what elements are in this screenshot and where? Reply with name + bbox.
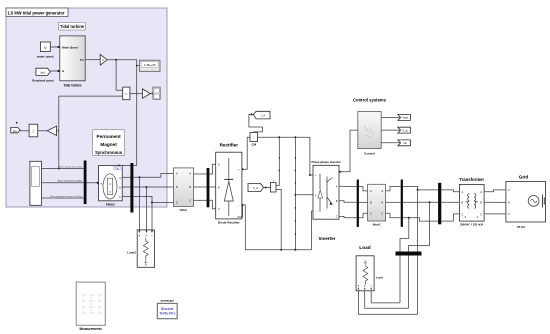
wire bar3 to transformer A [441,190,459,192]
svg-text:V_dc: V_dc [402,129,408,132]
DC link branch 1 [279,137,280,185]
DC plus rail wire [258,136,314,176]
subsystem box 1.5 MW tidal power generator [6,8,167,207]
svg-text:Gate: Gate [402,117,408,120]
label Grid [519,174,529,179]
wire bar3 to transformer C [441,214,459,221]
svg-text:C: C [119,196,121,199]
svg-text:Permanent: Permanent [96,134,121,139]
Load1 block [127,230,154,267]
tap C staircase to load bus [400,218,409,303]
svg-text:Filter: Filter [180,208,188,212]
wire PMSG phase B [122,186,130,188]
svg-text:Load: Load [376,276,383,280]
svg-text:Tidal Turbine: Tidal Turbine [64,84,82,88]
svg-text:powergui: powergui [161,299,174,303]
svg-text:25 kV: 25 kV [517,225,526,229]
constant block water speed [36,42,54,59]
unit delay block [29,124,38,137]
svg-text:filter1: filter1 [373,222,381,226]
svg-text:Rotor speed wm (rad/s): Rotor speed wm (rad/s) [59,165,82,168]
svg-text:CM: CM [251,142,256,146]
wire gain3 to unit block [38,130,48,132]
wire transformer to grid B [484,201,506,203]
goto tag Idc [398,140,411,146]
Tm port label blue [114,165,120,171]
VM voltage measurement block [271,180,277,193]
svg-text:Diode Rectifier: Diode Rectifier [218,220,241,224]
feedback vertical speed wire [58,96,60,169]
drop wire to Load1 A [138,177,140,231]
svg-text:PMSG: PMSG [106,203,116,207]
wire inverter m to control [339,130,358,173]
svg-text:Control systems: Control systems [353,97,386,102]
svg-text:Grid: Grid [519,174,529,179]
bus bar before rectifier [207,168,210,207]
wire gain2 to display2 [150,93,153,95]
wire bar1 to filter1 C jog [359,213,368,218]
bus selector bar [84,161,87,205]
svg-text:1.35e+06: 1.35e+06 [144,63,156,67]
svg-text:C: C [189,200,191,203]
svg-text:Rotor speed wm (rad/s): Rotor speed wm (rad/s) [58,180,83,183]
wire load bus to load A [359,291,418,315]
wire inverter B to bar [339,201,357,203]
wire control out1 to Gates tag [381,116,400,118]
svg-text:V_A: V_A [253,186,258,190]
load block [356,256,383,291]
svg-text:Three-phase inverter: Three-phase inverter [311,160,342,164]
wire filter1 to bar2 A jog [386,186,401,191]
wire CM i output to IA tag [249,113,263,132]
svg-text:Control: Control [364,151,375,155]
wire electromagnetic torque signal [42,195,84,198]
svg-text:C: C [176,202,178,205]
control block [358,112,381,156]
CM current measurement block [250,133,258,147]
wire VM minus to DC minus [276,190,281,250]
svg-text:-: - [239,204,240,207]
svg-text:C: C [480,213,482,216]
wire inverter C to bar [339,216,357,217]
svg-text:V: V [44,45,47,50]
DC minus rail wire [242,204,313,251]
wire load bus to load C [371,291,400,303]
powergui block [157,299,177,319]
tap A down to load bus [417,190,419,314]
wire inverter A to bar [339,185,357,187]
wire rotor angle signal [42,180,84,183]
label Tidal turbine [59,22,86,30]
wire filter1 to bar2 C jog [386,213,401,218]
goto tag [w] [11,122,20,133]
svg-text:Ts=5e-05 s: Ts=5e-05 s [159,312,175,316]
transformer block [459,184,484,226]
wire filter1 to bar2 B [386,201,401,203]
bus bar 3 [438,183,441,225]
wire PMSG phase A [122,176,130,178]
gain3 left pointing [47,126,56,135]
svg-text:Magnet: Magnet [100,142,117,147]
label Control systems [353,97,386,102]
svg-text:I_A: I_A [261,114,265,118]
svg-text:C: C [370,213,372,216]
svg-text:Electromagnetic torque Te (N*m: Electromagnetic torque Te (N*m) [50,195,82,198]
wire gain to display and feedback [107,59,139,166]
scope block rotor signals [30,161,42,205]
wire junction down to product [116,60,123,91]
filter1 block [368,184,386,226]
wire bar2 to bar3 C with jog [403,217,438,221]
drop wire to Load1 C [151,203,153,232]
svg-text:C: C [336,216,338,219]
wire bar to rectifier A jog [209,164,215,174]
wire bar2 to bar3 A with jog [403,186,438,191]
stub near rectifier minus [237,205,242,217]
wire bar to filter phase C with jog [133,196,173,203]
wire bar to filter phase A with jog [133,174,173,179]
svg-text:260V / 25 kV: 260V / 25 kV [460,223,484,227]
wire control out3 to Idc tag [381,142,400,144]
wire turbine Tm to gain [85,59,100,61]
svg-text:[w]: [w] [41,70,45,74]
svg-text:m: m [100,182,102,185]
label Rectifier [220,143,239,148]
measurements block [76,282,105,331]
wire rotational speed to turbine [50,70,60,72]
wire control out2 to Vdc tag [381,129,400,131]
svg-text:Tidal turbine: Tidal turbine [60,24,84,29]
svg-text:Measurements: Measurements [80,327,103,331]
wire filter to rectifier bar C [194,199,207,201]
wire water speed to turbine [50,46,60,48]
svg-text:Discrete: Discrete [161,307,174,311]
wire bar3 to transformer B [441,201,459,203]
svg-text:C: C [218,208,220,211]
display2 power [153,87,160,99]
label Load [359,245,371,251]
svg-text:C: C [508,213,510,216]
label Transformer [459,177,484,182]
filter block [173,168,193,212]
svg-text:Water Speed: Water Speed [62,45,78,49]
svg-text:Load: Load [359,245,371,251]
load bus thick bar [396,252,422,256]
svg-text:C: C [381,213,383,216]
block Tidal Turbine [60,36,85,88]
wire filter to rectifier bar A [194,173,207,175]
wire PMSG m to bus selector [87,182,99,184]
wire bar1 to filter1 A jog [359,186,368,191]
wire to goto w tag [20,130,29,132]
goto tag Gates [398,115,411,121]
svg-text:Rotational speed: Rotational speed [32,78,54,82]
DC link branch 2 [295,137,296,249]
measurement bus bar right of PMSG [130,163,133,213]
label Permanent Magnet Synchronous [93,130,125,156]
bus bar after inverter [357,180,359,227]
svg-text:Transformer: Transformer [459,177,484,182]
wire filter to rectifier bar B [194,186,207,188]
label Three-phase inverter [311,160,342,164]
goto tag V_A [248,184,264,192]
goto tag Vdc [398,127,411,133]
wire DC mid to inverter g [295,194,314,196]
wire tap to left gain [57,130,59,132]
svg-text:1.5 MW tidal power generator: 1.5 MW tidal power generator [8,11,65,16]
gain2 [143,89,151,98]
svg-text:C: C [462,213,464,216]
wire product to gain2 [130,92,143,94]
wire bar2 to bar3 B [403,201,438,203]
svg-text:[w]: [w] [13,129,17,133]
wire speed into product [59,95,123,97]
inverter block [313,165,339,241]
svg-text:Load1: Load1 [127,251,136,255]
bus bar 2 [401,180,403,227]
diode rectifier block [216,152,242,224]
svg-text:Inverter: Inverter [319,236,336,241]
svg-text:Rectifier: Rectifier [220,143,239,148]
svg-text:Synchronous: Synchronous [95,150,122,155]
svg-text:water speed: water speed [36,55,54,59]
wire transformer to grid C [484,213,506,215]
wire bar to filter phase B [133,186,173,188]
PMSG machine block [99,165,123,206]
wire bar to rectifier C jog [209,200,215,208]
wire PMSG phase C [122,195,130,197]
product block [123,87,130,100]
tap B staircase to load bus [409,202,430,308]
svg-text:Tm: Tm [80,58,85,62]
drop wire to Load1 B [145,187,147,231]
wire load bus to load B [365,291,409,309]
wire tag to VM [264,187,271,189]
wire rectifier plus to CM [242,137,250,170]
gain K torque [100,54,107,65]
wire bar1 to filter1 B [359,201,368,203]
display block torque value [139,60,160,71]
from tag [w] Rotational speed [32,68,54,82]
wire VM plus to DC plus [276,185,279,187]
goto tag IA [253,111,270,119]
grid block [506,182,546,229]
wire bar to rectifier B [209,186,215,188]
wire transformer to grid A [484,190,506,192]
wire rotor speed signal [42,165,84,168]
